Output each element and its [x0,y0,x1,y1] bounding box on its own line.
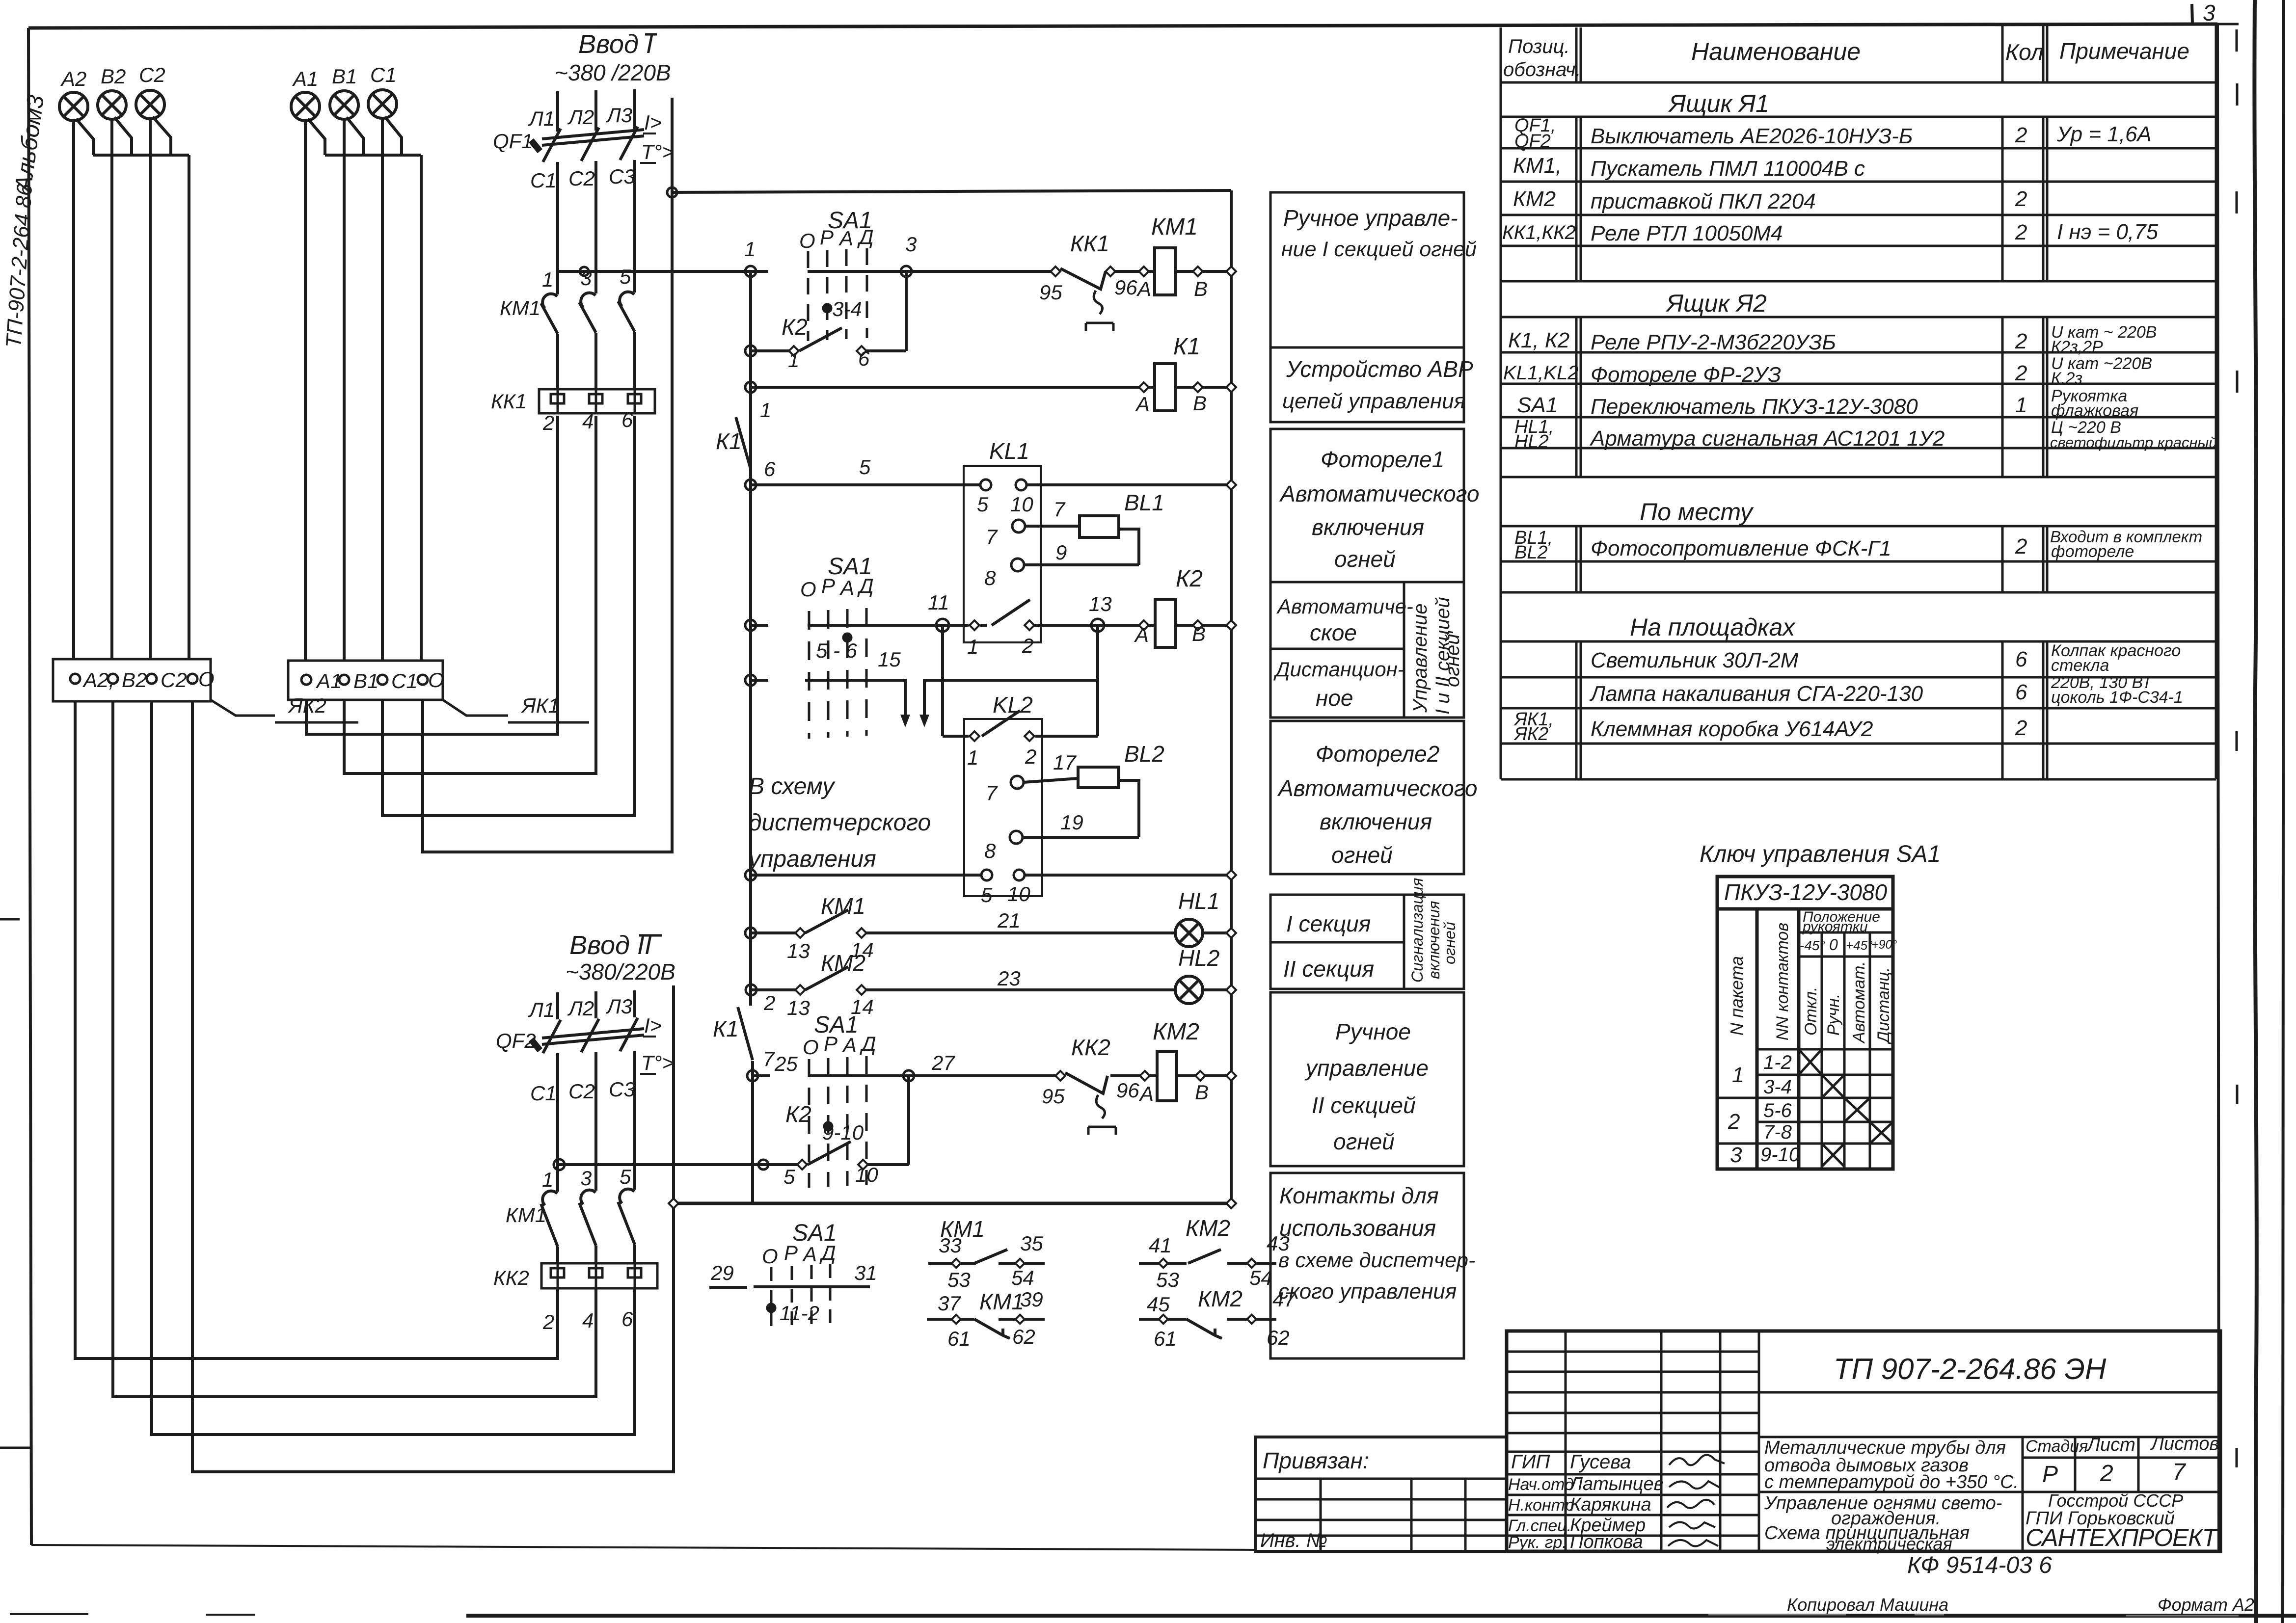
svg-text:6: 6 [621,1307,633,1330]
svg-text:С1: С1 [530,169,557,192]
svg-text:К2: К2 [785,1101,811,1127]
svg-text:2: 2 [2015,329,2027,353]
svg-text:ЯК2: ЯК2 [288,694,326,717]
svg-text:41: 41 [1149,1234,1172,1257]
svg-text:К2з,2Р: К2з,2Р [2051,338,2103,356]
svg-text:КК1,КК2: КК1,КК2 [1502,222,1576,243]
svg-text:А: А [1136,277,1151,300]
svg-text:Пускатель ПМЛ 110004В: Пускатель ПМЛ 110004В с [1591,157,1865,181]
svg-text:стекла: стекла [2051,656,2109,675]
svg-text:N пакета: N пакета [1727,956,1747,1036]
svg-text:Автоматического: Автоматического [1277,775,1478,801]
svg-text:Р: Р [784,1241,798,1264]
svg-text:КК1: КК1 [491,390,527,413]
svg-text:В2: В2 [101,65,126,88]
svg-text:HL1: HL1 [1178,888,1219,914]
svg-text:61: 61 [947,1327,971,1350]
svg-text:54: 54 [1011,1266,1034,1289]
svg-text:Наименование: Наименование [1691,38,1861,65]
svg-text:7: 7 [986,781,998,804]
svg-text:7: 7 [2172,1459,2187,1485]
svg-text:1: 1 [788,348,799,372]
svg-text:С1: С1 [530,1082,557,1105]
svg-text:BL2: BL2 [1124,741,1164,767]
svg-text:флажковая: флажковая [2051,401,2138,420]
svg-text:Арматура сигнальная: Арматура сигнальная АС1201 1У2 [1589,426,1945,451]
svg-text:КМ2: КМ2 [1186,1215,1230,1241]
svg-text:5: 5 [977,493,989,516]
svg-text:3-4: 3-4 [832,297,862,320]
svg-text:с температурой до +350 °С.: с температурой до +350 °С. [1764,1472,2019,1492]
svg-text:2: 2 [1022,634,1033,657]
svg-text:Листов: Листов [2150,1434,2219,1454]
svg-text:~380/220В: ~380/220В [566,959,675,984]
svg-text:Р: Р [821,574,835,597]
svg-text:Клеммная коробка У614АУ: Клеммная коробка У614АУ2 [1591,717,1873,741]
svg-text:На площадках: На площадках [1630,613,1796,641]
svg-text:КМ2: КМ2 [1153,1019,1199,1045]
svg-text:7-8: 7-8 [1763,1121,1792,1143]
svg-text:КМ2: КМ2 [821,950,865,976]
svg-text:Лист: Лист [2086,1435,2135,1455]
svg-text:С2: С2 [161,668,187,692]
svg-text:31: 31 [854,1261,877,1284]
svg-text:Ручное управле-: Ручное управле- [1283,205,1458,231]
svg-text:Ввод I: Ввод I [578,29,653,59]
svg-text:I>: I> [644,1014,662,1037]
svg-text:5-6: 5-6 [1763,1100,1792,1121]
svg-text:ние I секцией огней: ние I секцией огней [1281,238,1477,261]
svg-text:О: О [198,667,215,691]
svg-text:Автоматиче-: Автоматиче- [1276,595,1413,618]
svg-text:Ключ управления SA1: Ключ управления SA1 [1700,841,1941,867]
svg-text:КФ 9514-03 6: КФ 9514-03 6 [1907,1552,2052,1578]
svg-text:КМ2: КМ2 [1198,1286,1243,1311]
svg-text:С2: С2 [139,63,165,86]
svg-text:2: 2 [1025,745,1036,768]
svg-text:САНТЕХПРОЕКТ: САНТЕХПРОЕКТ [2026,1524,2218,1551]
svg-text:О: О [428,668,444,692]
svg-text:~380 /220В: ~380 /220В [555,60,671,85]
svg-text:огней: огней [1442,634,1463,687]
svg-text:11: 11 [928,591,949,614]
svg-text:электрическая: электрическая [1826,1534,1952,1554]
svg-text:2: 2 [763,991,775,1014]
svg-text:2: 2 [2015,220,2027,244]
svg-text:Р: Р [820,226,834,249]
svg-text:К1, К2: К1, К2 [1508,328,1569,352]
svg-text:Откл.: Откл. [1802,987,1820,1036]
svg-text:О: О [803,1036,819,1059]
svg-text:Лампа накаливания СГА-220: Лампа накаливания СГА-220-130 [1589,682,1923,706]
svg-text:ное: ное [1316,685,1353,711]
svg-text:включения: включения [1312,514,1424,540]
svg-text:А: А [841,1034,857,1057]
svg-text:А: А [1134,393,1150,416]
svg-text:4: 4 [582,1309,594,1332]
svg-text:КМ1,: КМ1, [1513,154,1562,178]
svg-text:10: 10 [855,1163,878,1186]
svg-text:39: 39 [1020,1288,1043,1311]
svg-text:Л1: Л1 [528,107,555,130]
svg-text:КК2: КК2 [1071,1035,1110,1060]
svg-text:А: А [839,576,854,599]
svg-text:2: 2 [2015,187,2027,211]
svg-text:3-4: 3-4 [1763,1076,1792,1098]
svg-text:Переключатель ПКУЗ-12У-308: Переключатель ПКУЗ-12У-3080 [1591,395,1918,419]
svg-text:KL1,KL2: KL1,KL2 [1503,362,1578,384]
svg-text:В1: В1 [353,669,378,692]
svg-text:1: 1 [1732,1063,1744,1087]
svg-text:А: А [802,1243,817,1266]
svg-text:С3: С3 [609,165,635,188]
svg-text:А2: А2 [60,67,86,90]
svg-text:Д: Д [857,574,874,597]
svg-text:7: 7 [763,1047,775,1070]
svg-text:5: 5 [620,1165,631,1188]
svg-text:цоколь 1Ф-С34-1: цоколь 1Ф-С34-1 [2051,688,2183,707]
svg-text:1: 1 [967,635,978,658]
svg-text:А: А [838,227,853,250]
svg-text:О: О [799,229,815,252]
svg-text:1: 1 [760,399,771,422]
svg-text:6: 6 [2015,680,2027,704]
svg-text:2: 2 [542,411,554,434]
svg-text:5 - 6: 5 - 6 [816,639,858,662]
svg-text:К1: К1 [1173,334,1200,360]
svg-text:обознач.: обознач. [1503,59,1581,80]
svg-text:1: 1 [967,746,978,769]
svg-text:включения: включения [1425,901,1443,979]
svg-text:Л1: Л1 [528,998,555,1021]
svg-text:5: 5 [859,455,871,479]
svg-text:2: 2 [542,1310,554,1333]
svg-text:2: 2 [2015,123,2027,147]
svg-text:8: 8 [984,566,996,589]
svg-text:25: 25 [774,1052,798,1075]
svg-text:19: 19 [1060,811,1083,834]
svg-text:II секция: II секция [1283,956,1374,982]
svg-text:53: 53 [1156,1268,1179,1291]
svg-text:Ящик Я1: Ящик Я1 [1668,90,1769,117]
svg-text:-45°: -45° [1800,938,1825,953]
svg-text:Позиц.: Позиц. [1508,36,1570,57]
svg-text:Стадия: Стадия [2026,1437,2088,1456]
svg-text:Устройство АВР: Устройство АВР [1286,356,1473,382]
svg-text:цепей управления: цепей управления [1282,389,1465,413]
svg-text:Ручн.: Ручн. [1824,994,1843,1036]
svg-text:В: В [1194,277,1208,300]
svg-text:ского управления: ского управления [1278,1279,1457,1304]
svg-text:рукоятки: рукоятки [1802,919,1868,935]
svg-text:С2: С2 [568,1080,595,1103]
svg-text:А: А [1134,623,1149,646]
svg-text:приставкой ПКЛ 2204: приставкой ПКЛ 2204 [1591,189,1816,213]
svg-text:ЯК2: ЯК2 [1513,724,1548,745]
svg-text:+45°: +45° [1846,938,1873,953]
svg-text:Инв. №: Инв. № [1260,1530,1327,1551]
svg-text:Д: Д [857,225,874,248]
svg-text:диспетчерского: диспетчерского [749,810,931,836]
svg-text:Светильник 30Л-2М: Светильник 30Л-2М [1591,648,1799,672]
svg-text:3: 3 [580,1167,592,1190]
svg-text:КМ1: КМ1 [500,296,540,319]
svg-text:KL1: KL1 [989,438,1029,464]
svg-text:ское: ское [1310,620,1357,645]
svg-text:В: В [1192,622,1206,645]
svg-text:9-10: 9-10 [1760,1144,1800,1166]
svg-text:3: 3 [905,233,917,256]
svg-text:Примечание: Примечание [2059,38,2189,64]
svg-text:2: 2 [2100,1461,2113,1487]
svg-text:включения: включения [1320,809,1432,834]
svg-text:ГИП: ГИП [1511,1451,1550,1473]
svg-text:Формат А2: Формат А2 [2158,1595,2254,1615]
svg-text:Управление: Управление [1409,604,1431,713]
svg-text:КМ1: КМ1 [506,1203,546,1226]
svg-text:1-2: 1-2 [1763,1052,1792,1073]
svg-text:61: 61 [1154,1327,1177,1350]
svg-text:Рук. гр.: Рук. гр. [1508,1533,1567,1552]
svg-text:Гл.спец.: Гл.спец. [1508,1517,1571,1535]
svg-text:В схему: В схему [749,773,836,799]
svg-text:2: 2 [2015,361,2027,385]
svg-text:Л3: Л3 [605,995,632,1018]
svg-text:Л3: Л3 [605,104,632,127]
svg-text:Фотосопротивление ФСК-Г1: Фотосопротивление ФСК-Г1 [1591,536,1891,560]
svg-text:BL1: BL1 [1124,490,1164,515]
svg-text:КМ1: КМ1 [1151,214,1198,240]
svg-text:Фотореле2: Фотореле2 [1316,741,1439,767]
svg-text:Автоматического: Автоматического [1279,481,1480,506]
svg-text:Привязан:: Привязан: [1263,1448,1369,1473]
svg-text:45: 45 [1147,1293,1170,1316]
svg-text:9-10: 9-10 [822,1121,864,1144]
svg-text:10: 10 [1007,882,1030,905]
svg-text:21: 21 [997,909,1021,932]
svg-text:62: 62 [1012,1325,1035,1348]
svg-text:33: 33 [939,1234,962,1257]
svg-text:8: 8 [984,839,996,862]
svg-text:Карякина: Карякина [1570,1494,1651,1515]
svg-text:фотореле: фотореле [2051,542,2134,561]
svg-text:13: 13 [787,939,810,962]
svg-text:7: 7 [1053,498,1066,521]
svg-text:7: 7 [986,525,998,548]
svg-text:10: 10 [1010,493,1033,516]
svg-text:КМ1: КМ1 [821,893,865,919]
svg-text:К2: К2 [1176,566,1203,592]
svg-text:3: 3 [2203,0,2215,26]
svg-text:6: 6 [858,347,870,370]
svg-text:А: А [1138,1082,1154,1105]
svg-text:HL2: HL2 [1178,945,1219,971]
svg-text:4: 4 [582,410,594,433]
svg-text:Дистанцион-: Дистанцион- [1273,658,1405,681]
svg-text:Л2: Л2 [567,106,594,129]
svg-text:QF1: QF1 [493,130,533,153]
svg-text:КМ1: КМ1 [979,1289,1024,1314]
svg-text:С2: С2 [568,167,595,190]
svg-text:огней: огней [1334,546,1396,572]
svg-text:Р: Р [2042,1462,2058,1488]
svg-text:27: 27 [931,1051,955,1074]
svg-text:Копировал Машина: Копировал Машина [1787,1595,1948,1615]
svg-text:огней: огней [1331,842,1393,868]
svg-text:6: 6 [2015,647,2027,671]
svg-text:Реле РПУ-2-М3б220УЗБ: Реле РПУ-2-М3б220УЗБ [1591,330,1836,354]
svg-text:Сигнализация: Сигнализация [1408,878,1426,983]
svg-text:QF2: QF2 [1514,131,1551,152]
svg-text:Госстрой СССР: Госстрой СССР [2048,1490,2183,1511]
svg-text:Ручное: Ручное [1335,1019,1411,1044]
svg-text:17: 17 [1053,751,1077,774]
svg-text:95: 95 [1042,1085,1065,1108]
svg-text:SA1: SA1 [1517,393,1558,417]
svg-text:Автомат.: Автомат. [1850,961,1868,1044]
svg-text:2: 2 [1728,1110,1740,1134]
svg-text:NN контактов: NN контактов [1773,923,1792,1040]
svg-text:К2: К2 [782,314,808,340]
svg-text:Латынцев: Латынцев [1568,1474,1663,1494]
svg-text:К1: К1 [713,1016,739,1041]
svg-text:Выключатель АЕ2026-10НУЗ-Б: Выключатель АЕ2026-10НУЗ-Б [1591,124,1913,148]
svg-text:2: 2 [2015,534,2027,559]
svg-text:Кол: Кол [2005,39,2044,65]
svg-text:Д: Д [819,1241,836,1264]
svg-text:BL2: BL2 [1514,542,1548,563]
svg-text:1: 1 [2015,393,2027,417]
svg-text:I секция: I секция [1286,911,1371,936]
svg-text:3: 3 [1730,1143,1742,1167]
svg-text:5: 5 [783,1165,795,1188]
svg-text:Попкова: Попкова [1570,1532,1643,1552]
svg-text:А2,: А2, [82,668,114,692]
svg-text:Дистанц.: Дистанц. [1874,967,1893,1045]
svg-text:К1: К1 [716,428,742,454]
svg-text:1: 1 [542,268,553,291]
svg-text:HL2: HL2 [1514,431,1549,452]
svg-text:35: 35 [1020,1232,1043,1255]
svg-text:А1: А1 [315,669,342,692]
svg-text:По месту: По месту [1640,498,1754,526]
svg-text:15: 15 [878,648,901,671]
svg-text:огней: огней [1441,922,1459,964]
svg-text:О: О [762,1245,778,1268]
svg-text:КК2: КК2 [493,1266,529,1289]
svg-text:Л2: Л2 [567,997,594,1020]
svg-text:В: В [1193,392,1207,415]
svg-text:ТП 907-2-264.86 ЭН: ТП 907-2-264.86 ЭН [1834,1353,2107,1385]
svg-text:96: 96 [1116,1079,1139,1102]
svg-text:T°>: T°> [641,1051,674,1074]
svg-text:КК1: КК1 [1070,231,1109,256]
svg-text:КМ2: КМ2 [1513,187,1556,211]
svg-text:6: 6 [764,457,776,480]
svg-text:53: 53 [947,1268,971,1291]
svg-text:5: 5 [981,883,993,906]
svg-text:использования: использования [1279,1215,1436,1241]
svg-text:Нач.отд: Нач.отд [1508,1475,1574,1494]
svg-text:Реле РТЛ 10050М4: Реле РТЛ 10050М4 [1591,221,1783,245]
svg-text:огней: огней [1333,1129,1395,1154]
svg-text:ЯК1: ЯК1 [521,694,560,717]
svg-text:А1: А1 [292,67,318,90]
svg-text:29: 29 [710,1261,734,1284]
svg-text:Н.контр: Н.контр [1508,1496,1574,1515]
svg-text:I>: I> [644,111,662,134]
svg-text:T°>: T°> [641,140,674,163]
svg-text:ПКУЗ-12У-3080: ПКУЗ-12У-3080 [1724,879,1888,905]
svg-text:управление: управление [1304,1055,1429,1081]
svg-text:В2: В2 [122,668,147,692]
svg-text:13: 13 [1089,592,1112,615]
svg-text:Д: Д [860,1032,876,1055]
svg-text:+90°: +90° [1871,938,1897,952]
svg-text:В: В [1195,1081,1209,1104]
svg-text:1: 1 [744,238,756,261]
svg-text:Фотореле1: Фотореле1 [1321,447,1444,472]
svg-text:В1: В1 [332,65,357,88]
svg-text:54: 54 [1249,1266,1272,1289]
svg-text:0: 0 [1829,936,1838,954]
svg-text:О: О [800,578,816,601]
svg-text:Гусева: Гусева [1570,1451,1631,1473]
svg-text:KL2: KL2 [993,692,1033,718]
svg-text:2: 2 [2015,716,2027,740]
svg-text:37: 37 [938,1292,961,1315]
svg-text:светофильтр красный: светофильтр красный [2050,434,2217,451]
svg-text:95: 95 [1039,281,1062,304]
svg-text:К.2з: К.2з [2051,369,2082,388]
svg-text:С3: С3 [609,1078,635,1101]
svg-text:II секцией: II секцией [1312,1092,1416,1118]
svg-text:6: 6 [621,408,633,431]
svg-text:Р: Р [824,1032,837,1055]
svg-text:QF2: QF2 [496,1029,536,1052]
svg-text:С1: С1 [370,63,397,86]
svg-text:управления: управления [747,846,876,872]
svg-text:в схеме диспетчер-: в схеме диспетчер- [1278,1249,1475,1272]
svg-text:23: 23 [997,967,1021,990]
svg-text:11-2: 11-2 [780,1302,819,1325]
svg-text:С1: С1 [391,669,418,692]
svg-text:Ур = 1,6А: Ур = 1,6А [2056,122,2152,146]
svg-text:Контакты для: Контакты для [1279,1183,1439,1208]
svg-text:9: 9 [1055,541,1067,564]
svg-text:1: 1 [542,1168,553,1191]
svg-text:Фотореле ФР-2УЗ: Фотореле ФР-2УЗ [1591,363,1781,387]
svg-text:5: 5 [620,265,631,288]
svg-text:96: 96 [1114,276,1137,299]
svg-text:13: 13 [787,996,810,1019]
svg-text:I нэ = 0,75: I нэ = 0,75 [2057,220,2159,244]
svg-text:Ящик Я2: Ящик Я2 [1665,290,1767,317]
